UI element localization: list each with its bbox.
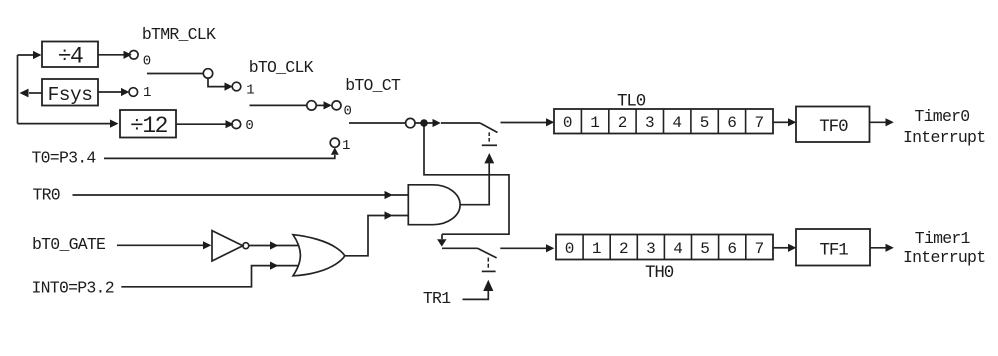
svg-text:Interrupt: Interrupt — [903, 248, 985, 267]
svg-text:1: 1 — [342, 138, 350, 154]
svg-text:6: 6 — [727, 114, 737, 132]
svg-text:1: 1 — [592, 240, 602, 258]
svg-text:5: 5 — [700, 114, 710, 132]
svg-text:3: 3 — [645, 114, 655, 132]
svg-text:Timer1: Timer1 — [915, 229, 971, 248]
svg-text:Fsys: Fsys — [48, 84, 93, 106]
svg-text:T0=P3.4: T0=P3.4 — [32, 149, 97, 168]
svg-text:bTO_CT: bTO_CT — [345, 76, 401, 95]
svg-text:TF0: TF0 — [819, 117, 848, 137]
svg-text:4: 4 — [672, 114, 682, 132]
svg-text:5: 5 — [700, 240, 710, 258]
svg-text:0: 0 — [344, 103, 352, 119]
svg-text:TR0: TR0 — [33, 185, 60, 204]
svg-text:TF1: TF1 — [819, 240, 848, 260]
svg-text:bTMR_CLK: bTMR_CLK — [142, 25, 216, 44]
svg-text:0: 0 — [143, 53, 151, 69]
svg-text:Interrupt: Interrupt — [903, 128, 985, 147]
svg-text:0: 0 — [563, 114, 573, 132]
svg-text:TL0: TL0 — [617, 91, 646, 111]
svg-text:Timer0: Timer0 — [915, 107, 970, 126]
svg-text:TH0: TH0 — [645, 263, 674, 283]
svg-text:2: 2 — [618, 114, 628, 132]
svg-text:TR1: TR1 — [423, 289, 451, 308]
svg-text:7: 7 — [755, 240, 765, 258]
svg-text:÷4: ÷4 — [58, 44, 83, 70]
svg-text:3: 3 — [646, 240, 656, 258]
svg-text:0: 0 — [565, 240, 575, 258]
svg-text:bT0_GATE: bT0_GATE — [32, 235, 106, 254]
svg-text:2: 2 — [619, 240, 629, 258]
svg-text:1: 1 — [143, 85, 151, 101]
svg-text:6: 6 — [727, 240, 737, 258]
svg-text:1: 1 — [590, 114, 600, 132]
svg-text:7: 7 — [754, 114, 764, 132]
svg-text:4: 4 — [673, 240, 683, 258]
svg-text:bTO_CLK: bTO_CLK — [249, 58, 314, 77]
svg-text:1: 1 — [246, 82, 254, 98]
svg-text:INT0=P3.2: INT0=P3.2 — [32, 279, 114, 298]
svg-text:0: 0 — [245, 118, 253, 134]
svg-text:÷12: ÷12 — [130, 113, 168, 139]
